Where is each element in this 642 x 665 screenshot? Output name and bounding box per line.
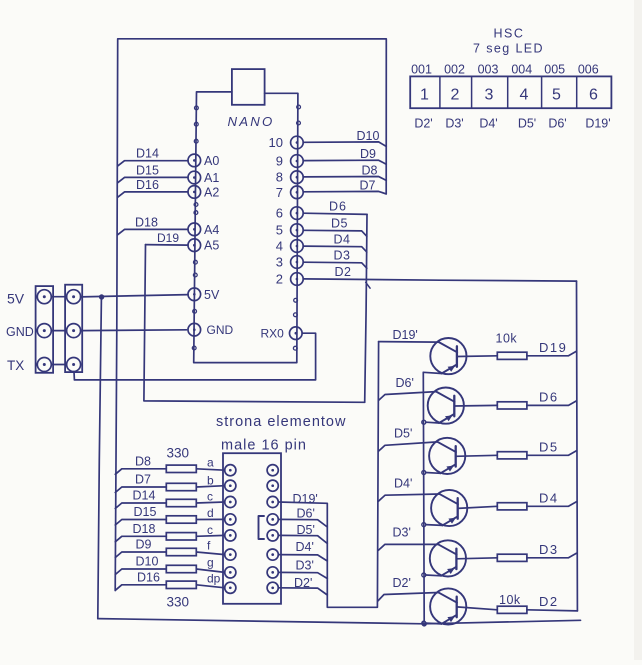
table divider x=541.6	[541, 76, 543, 108]
svg-text:D3': D3'	[445, 117, 463, 131]
wire output rail (right)	[576, 281, 579, 611]
svg-text:5V: 5V	[7, 291, 25, 307]
NANO pin GND	[188, 323, 201, 336]
NANO pin A5	[188, 239, 201, 252]
wire collector Q4 to resistor	[458, 506, 498, 508]
svg-text:D5: D5	[539, 439, 559, 454]
NANO pin 5V	[188, 288, 201, 301]
pin stub mark (194.6,311.3)	[193, 309, 197, 313]
wire TX to RX0	[74, 333, 316, 380]
svg-text:HSC: HSC	[494, 27, 525, 41]
wire R1 to connector pin	[196, 469, 225, 470]
svg-text:D16: D16	[137, 570, 160, 584]
svg-text:5: 5	[276, 223, 283, 238]
wire D19 riser (down to y=401 then right)	[144, 245, 365, 403]
wire base D4'	[378, 494, 439, 501]
NANO USB square	[232, 69, 265, 105]
wire D19' from J2	[278, 502, 377, 607]
J2 right pin 11	[267, 496, 278, 507]
wire emitter Q1 to rail	[423, 372, 441, 373]
junction ring Q2 emitter	[422, 420, 426, 424]
svg-text:D5': D5'	[394, 427, 412, 441]
wire output D4	[527, 502, 577, 507]
pin stub mark (295.6,300.3)	[294, 298, 298, 302]
svg-text:D18: D18	[135, 215, 158, 229]
wire output D2	[527, 610, 578, 611]
svg-text:RX0: RX0	[261, 327, 285, 341]
wire output D19	[527, 351, 577, 356]
NANO pin 9	[291, 155, 304, 168]
svg-text:D2': D2'	[294, 576, 312, 590]
J2 right pin 16	[267, 582, 278, 593]
pin stub mark (298.5,123.0)	[297, 121, 301, 125]
svg-text:D4': D4'	[296, 540, 314, 554]
svg-text:D5: D5	[331, 217, 348, 231]
svg-text:004: 004	[511, 63, 532, 77]
connector pin at y=296.7	[37, 290, 51, 304]
wire emitter Q2 to rail	[426, 421, 439, 424]
wire D9	[303, 160, 386, 164]
display table outline	[410, 76, 611, 108]
svg-text:d: d	[207, 506, 214, 520]
svg-text:D7: D7	[135, 473, 151, 487]
pin stub mark (195.9,212.6)	[194, 211, 198, 215]
wire output D3	[527, 553, 577, 558]
svg-text:D19': D19'	[393, 328, 418, 342]
connector J1 column 2	[65, 285, 82, 372]
J2 left pin 8	[225, 582, 236, 593]
junction ring Q3 emitter	[422, 471, 426, 475]
svg-text:D8: D8	[135, 454, 151, 468]
wire D16	[117, 192, 188, 198]
J2 right pin 10	[267, 480, 278, 491]
wire D7	[303, 191, 386, 194]
svg-text:D16: D16	[136, 178, 159, 192]
svg-text:002: 002	[444, 63, 465, 77]
wire D14	[117, 161, 188, 167]
wire D3' from J2	[278, 572, 327, 578]
wire D14 left hook	[115, 503, 166, 509]
svg-text:D2': D2'	[414, 117, 432, 131]
wire R7 to connector pin	[196, 569, 225, 572]
wire D10	[303, 142, 386, 147]
wire collector Q1 to resistor	[457, 355, 497, 358]
svg-text:A4: A4	[204, 223, 219, 237]
svg-text:D5': D5'	[518, 117, 536, 131]
pin stub mark (194.2,348.0)	[192, 346, 196, 350]
svg-text:D3': D3'	[296, 559, 314, 573]
svg-text:strona elementow: strona elementow	[216, 414, 346, 430]
svg-text:D6: D6	[539, 389, 559, 404]
wire D8 left hook	[115, 469, 166, 475]
wire D18 left hook	[115, 536, 166, 542]
svg-text:D9: D9	[136, 538, 152, 552]
svg-text:D4': D4'	[479, 117, 497, 131]
junction ring Q6 emitter	[422, 621, 426, 625]
bracket mark next to J2 pins	[259, 516, 265, 539]
pin stub mark (196.3,124.2)	[194, 122, 198, 126]
svg-text:D10: D10	[136, 555, 159, 569]
svg-text:3: 3	[485, 87, 494, 104]
svg-text:330: 330	[167, 446, 190, 461]
svg-text:D3: D3	[334, 248, 351, 262]
NANO pin A4	[188, 223, 201, 236]
table divider x=439.9	[439, 76, 441, 108]
NANO pin 6	[291, 207, 304, 220]
J2 right pin 12	[267, 514, 278, 525]
resistor 330 R2	[166, 483, 196, 490]
resistor 10k R14	[497, 606, 527, 613]
svg-text:D2': D2'	[393, 576, 411, 590]
wire base D6'	[378, 392, 436, 401]
svg-text:c: c	[207, 490, 213, 504]
svg-text:D15: D15	[136, 163, 159, 177]
svg-text:D19: D19	[539, 340, 567, 355]
svg-text:A5: A5	[204, 239, 219, 253]
svg-text:D19': D19'	[585, 117, 610, 131]
transistor Q6	[430, 588, 466, 624]
wire emitter Q4 to rail	[426, 524, 443, 527]
svg-text:005: 005	[544, 63, 565, 77]
transistor Q1	[430, 338, 466, 374]
wire D2 (long run to output rail)	[303, 279, 576, 281]
resistor 10k R13	[497, 554, 527, 561]
svg-text:D4: D4	[334, 232, 351, 246]
wire D6 (turns down into bus)	[303, 213, 367, 214]
svg-text:D15: D15	[134, 505, 157, 519]
J2 left pin 1	[225, 465, 236, 476]
wire GND row link	[51, 330, 66, 332]
svg-text:2: 2	[276, 272, 283, 287]
resistor 10k R11	[497, 452, 527, 459]
svg-text:A1: A1	[204, 171, 219, 185]
wire base D2'	[378, 593, 439, 602]
wire GND to NANO	[81, 329, 187, 332]
wire D2' from J2	[278, 588, 327, 595]
svg-text:9: 9	[276, 154, 283, 169]
wire base bus vertical	[377, 342, 378, 608]
table divider x=507.7	[507, 76, 509, 108]
J2 left pin 5	[225, 530, 236, 541]
J2 left pin 7	[225, 567, 236, 578]
svg-text:6: 6	[589, 87, 598, 104]
svg-text:4: 4	[276, 239, 283, 254]
pin stub mark (196.0,204.5)	[194, 203, 198, 207]
svg-text:D10: D10	[357, 129, 380, 143]
J2 right pin 15	[267, 567, 278, 578]
wire base D19'	[379, 341, 439, 344]
svg-text:D6': D6'	[548, 117, 566, 131]
resistor 10k R9	[497, 352, 527, 359]
op-amp? no: Arduino NANO U1 body rails	[194, 92, 298, 363]
svg-text:D4': D4'	[394, 477, 412, 491]
wire D5' from J2	[278, 535, 327, 543]
pin stub mark (195.3,275.0)	[193, 273, 197, 277]
NANO pin 10	[291, 136, 304, 149]
svg-text:7 seg LED: 7 seg LED	[473, 42, 544, 56]
wire D4' from J2	[278, 555, 327, 561]
wire D8	[303, 177, 386, 181]
wire emitter rail vertical	[422, 372, 425, 622]
wire R2 to connector pin	[196, 486, 225, 487]
wire R4 to connector pin	[196, 518, 225, 520]
svg-text:10: 10	[269, 135, 283, 150]
J2 left pin 4	[225, 514, 236, 525]
wire collector Q5 to resistor	[456, 558, 497, 559]
resistor 330 R8	[166, 581, 196, 588]
wire emitter Q6 to rail	[426, 622, 442, 625]
wire output D6	[527, 401, 577, 406]
svg-text:10k: 10k	[496, 332, 518, 346]
svg-text:GND: GND	[6, 325, 34, 339]
pin stub mark (295.4,314.8)	[294, 313, 298, 317]
resistor 330 R1	[166, 465, 196, 472]
svg-text:D14: D14	[136, 147, 159, 161]
wire bus vertical (D6 bus down to y=402)	[365, 214, 367, 402]
wire D9 left hook	[115, 552, 166, 558]
wire base D5'	[378, 442, 437, 451]
pin stub mark (196.2,141.2)	[194, 139, 198, 143]
svg-text:330: 330	[167, 595, 190, 610]
resistor 330 R4	[166, 516, 196, 523]
NANO pin A2	[188, 186, 201, 199]
J2 right pin 13	[267, 530, 278, 541]
svg-text:5: 5	[552, 87, 561, 104]
transistor Q3	[429, 438, 465, 474]
svg-text:a: a	[207, 455, 214, 469]
svg-text:D6': D6'	[297, 507, 315, 521]
svg-text:A2: A2	[204, 185, 219, 199]
J2 right pin 9	[267, 465, 278, 476]
svg-text:2: 2	[451, 87, 460, 104]
wire D5	[303, 230, 367, 236]
resistor 330 R5	[166, 533, 196, 540]
J2 left pin 3	[225, 496, 236, 507]
NANO pin 3	[291, 256, 304, 269]
pin stub mark (298.6,107.0)	[297, 105, 301, 109]
svg-text:D2: D2	[539, 594, 559, 609]
pin stub mark (295.3,348.2)	[293, 346, 297, 350]
wire 5V row link	[51, 296, 66, 298]
wire emitter Q5 to rail	[426, 574, 441, 577]
wire base D3'	[378, 544, 438, 550]
wire R3 to connector pin	[196, 502, 225, 503]
wire R5 to connector pin	[196, 534, 225, 537]
wire outer frame (left edge, top edge, right edge)	[115, 39, 386, 591]
svg-text:dp: dp	[207, 571, 221, 585]
wire output D5	[527, 451, 577, 456]
wire D4	[303, 246, 367, 252]
svg-text:D19': D19'	[293, 492, 318, 506]
wire D10 left hook	[115, 569, 166, 575]
svg-text:D6': D6'	[396, 376, 414, 390]
svg-text:c: c	[207, 523, 213, 537]
NANO pin A0	[188, 154, 201, 167]
wire R6 to connector pin	[196, 552, 225, 555]
wire collector Q6 to resistor	[457, 607, 498, 610]
svg-text:4: 4	[520, 87, 529, 104]
resistor 330 R3	[166, 499, 196, 506]
NANO pin 5	[291, 224, 304, 237]
pin stub mark (195.4,262.2)	[194, 260, 198, 264]
J2 left pin 2	[225, 480, 236, 491]
resistor 10k R10	[497, 402, 527, 409]
connector J2 male 16 pin body	[223, 453, 281, 604]
bus jog mark	[366, 282, 370, 288]
svg-text:D7: D7	[360, 178, 376, 192]
wire D18	[117, 229, 188, 235]
NANO pin 2	[291, 273, 304, 286]
svg-text:D19: D19	[157, 231, 179, 245]
NANO pin 4	[291, 240, 304, 253]
wire D7 left hook	[115, 487, 166, 493]
svg-text:D4: D4	[539, 490, 559, 505]
svg-text:D14: D14	[133, 489, 156, 503]
wire D16 left hook	[115, 585, 166, 591]
svg-text:6: 6	[276, 206, 283, 221]
svg-text:8: 8	[276, 170, 283, 185]
wire emitter Q3 to rail	[426, 472, 441, 475]
resistor 330 R7	[166, 565, 196, 572]
connector pin at y=364.5	[37, 358, 51, 372]
svg-text:003: 003	[478, 63, 499, 77]
svg-text:D3: D3	[539, 542, 559, 557]
wire collector Q2 to resistor	[454, 404, 497, 407]
J2 left pin 6	[225, 549, 236, 560]
connector J1 column 1 (5V/GND/TX header)	[36, 286, 54, 373]
svg-text:D3': D3'	[393, 526, 411, 540]
svg-text:D2: D2	[335, 265, 352, 279]
transistor Q2	[428, 388, 464, 424]
wire bottom 5V rail	[98, 619, 581, 624]
svg-text:5V: 5V	[204, 288, 220, 302]
NANO pin 7	[291, 186, 304, 199]
NANO pin RX0	[290, 327, 303, 340]
svg-text:TX: TX	[7, 358, 24, 373]
wire 5V drop (down left side)	[98, 299, 102, 619]
wire TX row link	[51, 364, 66, 366]
svg-text:g: g	[207, 556, 214, 570]
NANO pin A1	[188, 171, 201, 184]
wire D3	[303, 262, 367, 268]
svg-text:1: 1	[420, 87, 429, 104]
transistor Q5	[430, 540, 466, 576]
svg-text:D18: D18	[133, 522, 156, 536]
svg-text:D9: D9	[360, 147, 376, 161]
NANO pin 8	[291, 171, 304, 184]
svg-text:D6: D6	[329, 200, 347, 214]
wire D15 left hook	[115, 520, 166, 526]
svg-text:006: 006	[578, 63, 599, 77]
svg-text:male 16 pin: male 16 pin	[221, 438, 307, 454]
svg-text:001: 001	[411, 63, 432, 77]
svg-text:GND: GND	[207, 323, 234, 337]
pin stub mark (196.4,107.9)	[195, 106, 199, 110]
table divider x=471.6	[471, 76, 473, 108]
svg-text:NANO: NANO	[228, 114, 275, 129]
svg-text:3: 3	[276, 255, 283, 270]
resistor 330 R6	[166, 548, 196, 555]
svg-text:D8: D8	[362, 163, 378, 177]
wire D6' from J2	[278, 519, 327, 527]
svg-text:7: 7	[276, 185, 283, 200]
wire D15	[117, 177, 188, 183]
junction ring Q5 emitter	[422, 573, 426, 577]
wire collector Q3 to resistor	[456, 455, 498, 456]
junction ring emitter rail / bottom rail	[422, 622, 426, 626]
svg-text:D5': D5'	[297, 523, 315, 537]
wire R8 to connector pin	[196, 585, 225, 588]
wire 5V to NANO	[81, 295, 189, 297]
junction dot on 5V wire	[99, 294, 104, 299]
resistor 10k R12	[497, 503, 527, 510]
svg-text:b: b	[207, 474, 214, 488]
connector pin at y=330.6	[37, 324, 51, 338]
transistor Q4	[431, 490, 467, 526]
svg-text:10k: 10k	[499, 593, 521, 607]
J2 right pin 14	[267, 549, 278, 560]
svg-text:A0: A0	[204, 154, 219, 168]
wire D19 to A5	[146, 244, 189, 247]
table divider x=576.7	[576, 76, 578, 108]
junction ring Q4 emitter	[422, 523, 426, 527]
